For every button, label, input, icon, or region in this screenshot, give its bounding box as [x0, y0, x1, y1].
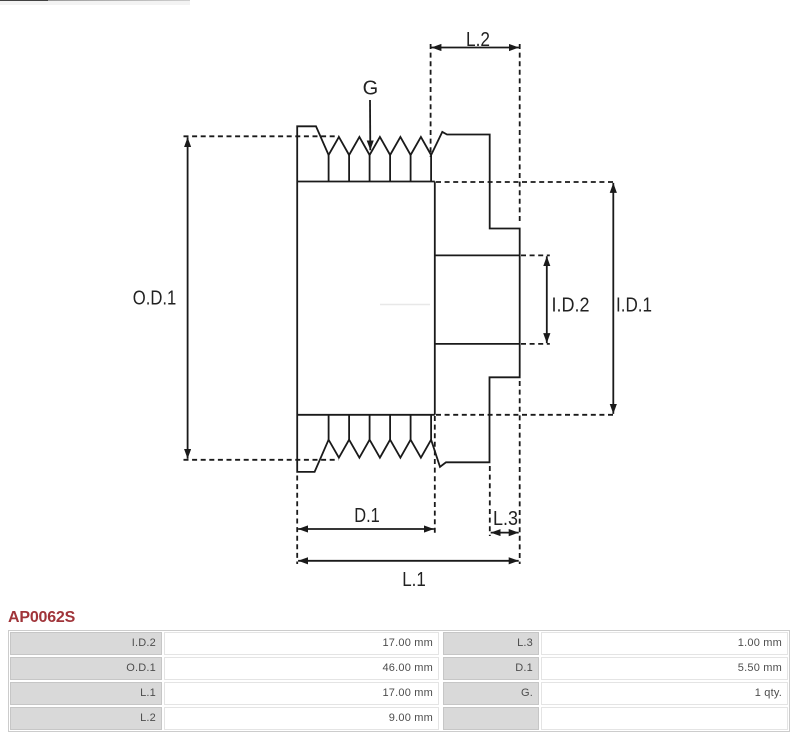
- svg-text:L.1: L.1: [402, 569, 426, 591]
- svg-text:L.2: L.2: [466, 29, 490, 51]
- label D.1: [354, 505, 380, 527]
- dimension D.1 arrow: [298, 528, 434, 530]
- dimension I.D.1 arrow: [612, 183, 614, 414]
- extension lines dashed: [184, 44, 617, 564]
- label I.D.1: [616, 295, 652, 317]
- row 4: [10, 707, 162, 730]
- row 1: [10, 632, 162, 655]
- label O.D.1: [133, 288, 177, 310]
- svg-text:D.1: D.1: [354, 505, 380, 527]
- bottom groove verticals: [329, 415, 432, 440]
- part number: [8, 609, 75, 627]
- svg-text:G: G: [363, 78, 379, 100]
- label L.3: [493, 508, 518, 530]
- spec table: [8, 630, 790, 732]
- hub top edge: [435, 254, 520, 256]
- faint watermark line: [380, 304, 430, 306]
- dimension L.3 arrow: [491, 532, 519, 534]
- label L.2: [466, 29, 490, 51]
- dimension L.2 arrow: [431, 47, 519, 49]
- dimension O.D.1 arrow: [187, 137, 189, 459]
- svg-text:I.D.1: I.D.1: [616, 295, 652, 317]
- top groove verticals: [329, 155, 432, 182]
- row 2: [10, 657, 162, 680]
- svg-text:I.D.2: I.D.2: [552, 295, 590, 317]
- groove root line top: [297, 181, 435, 183]
- svg-text:O.D.1: O.D.1: [133, 288, 177, 310]
- dimension I.D.2 arrow: [546, 256, 548, 343]
- label G: [363, 78, 379, 100]
- body right edge: [434, 182, 436, 415]
- svg-text:L.3: L.3: [493, 508, 518, 530]
- dimension L.1 arrow: [298, 560, 519, 562]
- G leader arrow: [369, 100, 371, 150]
- label L.1: [402, 569, 426, 591]
- hub bottom edge: [435, 343, 520, 345]
- label I.D.2: [552, 295, 590, 317]
- groove root line bottom: [297, 414, 435, 416]
- top-left scan artifact line: [0, 0, 48, 1]
- row 3: [10, 682, 162, 705]
- pulley outline: [297, 126, 520, 472]
